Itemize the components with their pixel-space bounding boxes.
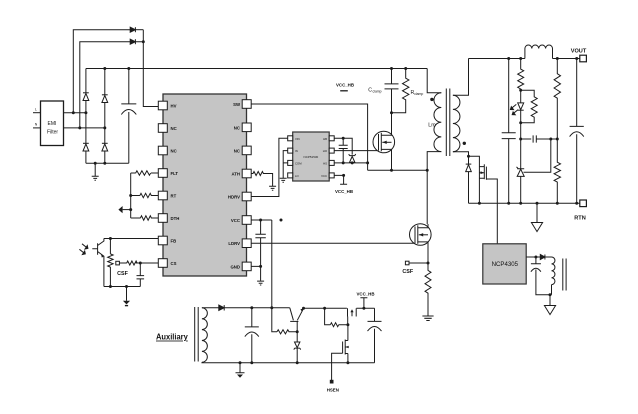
node rtn snubber bbox=[507, 202, 510, 205]
wire output return rail bbox=[469, 202, 581, 204]
svg-text:HB: HB bbox=[323, 137, 327, 141]
node rtn gnd bbox=[536, 202, 539, 205]
resistor R_base bbox=[277, 330, 297, 334]
pin SW bbox=[242, 100, 251, 109]
wire aux bottom bbox=[202, 361, 375, 364]
svg-text:CS: CS bbox=[171, 261, 177, 266]
node zener gnd bbox=[296, 361, 299, 364]
node emitter join bbox=[302, 307, 305, 310]
svg-text:DTH: DTH bbox=[171, 216, 180, 221]
node ref leg bbox=[549, 138, 552, 141]
bridge right leg bbox=[104, 69, 106, 164]
capacitor bulk electrolytic bbox=[121, 69, 136, 164]
diode bridge top-left bbox=[83, 93, 89, 101]
wire LDRV gate drive bbox=[251, 242, 415, 244]
transistor Q3 sync MOSFET bbox=[469, 156, 498, 244]
svg-text:NC: NC bbox=[234, 125, 240, 130]
node rtn divider bbox=[556, 202, 559, 205]
svg-text:VCC: VCC bbox=[231, 218, 240, 223]
svg-text:HSEN: HSEN bbox=[327, 388, 339, 393]
terminal CSF sense bbox=[116, 261, 120, 265]
wire EMI output neutral to bridge bbox=[64, 127, 105, 129]
capacitor C_CS filter bbox=[137, 263, 145, 287]
svg-text:VCC: VCC bbox=[321, 174, 327, 178]
transformer core aux2 bbox=[563, 259, 566, 291]
svg-text:NCP4305: NCP4305 bbox=[492, 261, 519, 268]
inductor aux winding NCP4305 bbox=[552, 257, 555, 285]
diode D1 HV startup from line bbox=[130, 27, 135, 32]
stray junction dot bbox=[280, 219, 283, 222]
node LED chain top bbox=[519, 57, 522, 60]
wire diode to winding bbox=[545, 256, 552, 258]
svg-text:CSF: CSF bbox=[117, 271, 128, 277]
svg-text:VIN: VIN bbox=[295, 137, 300, 141]
pin NC right2 bbox=[242, 123, 251, 132]
capacitor C_comp bbox=[521, 135, 558, 142]
node FB pulldown bbox=[109, 237, 112, 240]
svg-text:HS: HS bbox=[323, 161, 327, 165]
svg-text:L: L bbox=[35, 108, 37, 112]
svg-text:HDRV: HDRV bbox=[228, 195, 240, 200]
svg-text:N: N bbox=[35, 123, 38, 127]
capacitor C_ncp electrolytic bbox=[531, 257, 550, 295]
node bridge left line-in bbox=[84, 111, 87, 114]
pin HO bbox=[329, 148, 334, 153]
node HS HB-leg bbox=[351, 161, 354, 164]
svg-text:VCC_HB: VCC_HB bbox=[356, 292, 374, 297]
wire HB bootstrap bbox=[334, 138, 352, 163]
resistor R_CS filter bbox=[119, 261, 158, 265]
wire switch-node rail bbox=[368, 169, 428, 171]
wire HS to switch node bbox=[334, 162, 367, 164]
wire HO gate drive bbox=[334, 150, 378, 152]
ground ATH earth bbox=[269, 186, 276, 190]
transistor Q5 PMOS switch bbox=[348, 308, 357, 324]
svg-text:SW: SW bbox=[233, 102, 241, 107]
transformer T1 core bbox=[446, 89, 450, 157]
resistor R_led_parallel bbox=[521, 90, 538, 123]
pin LO bbox=[288, 173, 293, 178]
diode bridge bottom-left bbox=[83, 143, 89, 151]
pin FLT bbox=[158, 169, 167, 178]
svg-text:clamp: clamp bbox=[373, 90, 382, 94]
wire emitter rail bbox=[304, 307, 347, 309]
pin ATH bbox=[242, 169, 251, 178]
node comp cap left bbox=[519, 138, 522, 141]
resistor R_div_upper bbox=[554, 59, 560, 140]
node HV diode join bbox=[142, 40, 145, 43]
svg-text:RTN: RTN bbox=[574, 216, 586, 222]
diode LED opto emitter bbox=[510, 90, 523, 123]
resistor R_sense bbox=[425, 263, 431, 316]
node ground tap bbox=[125, 285, 128, 288]
wire LED chain to TL431 bbox=[520, 123, 522, 204]
wire EMI output line to bridge bbox=[64, 112, 86, 114]
ground sense earth bbox=[422, 316, 433, 321]
pin IN bbox=[288, 148, 293, 153]
transistor Q4 pass NPN bbox=[290, 308, 304, 332]
pin VIN bbox=[288, 136, 293, 141]
pin CS bbox=[158, 259, 167, 268]
pin NC right3 bbox=[242, 146, 251, 155]
svg-text:CSF: CSF bbox=[402, 269, 413, 275]
wire FB to opto bbox=[104, 238, 158, 240]
ground arrow analog bbox=[123, 209, 131, 211]
wire NCP4305 vcc bbox=[526, 256, 540, 258]
diode D_aux bbox=[219, 305, 224, 310]
capacitor C_vcchb electrolytic bbox=[368, 308, 382, 363]
wire vcc to base resistor bbox=[272, 308, 277, 332]
node aux cap bbox=[250, 306, 253, 309]
wire HV startup tap from neutral bbox=[80, 42, 130, 128]
wire bulk rail bbox=[86, 68, 427, 70]
node aux cap bottom bbox=[250, 361, 253, 364]
shunt regulator TL431 bbox=[517, 139, 551, 176]
terminal HSEN stub bbox=[330, 380, 333, 383]
node LED top bbox=[519, 89, 522, 92]
op-amp U3 NCP4305 bbox=[483, 244, 526, 284]
diode D_aux2 bbox=[540, 255, 545, 260]
node snubber cap top bbox=[507, 57, 510, 60]
pin FB bbox=[158, 236, 167, 245]
svg-text:FLT: FLT bbox=[171, 171, 179, 176]
supply VCC_HB driver pin bbox=[334, 175, 347, 184]
resistor R_gate2 bbox=[330, 323, 348, 327]
wire driver IN-COM tie to ground bbox=[283, 151, 288, 178]
terminal RTN bbox=[580, 200, 587, 207]
capacitor C_VCC bbox=[255, 220, 265, 266]
node qsmall drain bbox=[346, 323, 349, 326]
wire VCC feed down to aux bbox=[271, 220, 273, 308]
pin HDRV bbox=[242, 192, 251, 201]
transistor opto output bbox=[79, 239, 104, 287]
node rail right-leg bbox=[103, 67, 106, 70]
ground aux arrow bbox=[236, 363, 245, 373]
terminal CSF main bbox=[405, 261, 409, 265]
node q6 source bbox=[346, 361, 349, 364]
svg-text:IN: IN bbox=[295, 149, 298, 153]
node bridge right neutral-in bbox=[103, 126, 106, 129]
wire bridge bottom bbox=[86, 162, 129, 164]
pin VCC bbox=[242, 216, 251, 225]
capacitor C_sec snubber bbox=[502, 59, 516, 204]
pin GND bbox=[242, 262, 251, 271]
diode bridge bottom-right bbox=[102, 143, 108, 151]
wire HV feed down to HV pin bbox=[135, 30, 158, 107]
transistor Q6 HSEN MOSFET bbox=[343, 325, 349, 363]
node secondary bottom bbox=[467, 155, 470, 158]
ground driver earth bbox=[280, 178, 287, 182]
pin DTH bbox=[158, 214, 167, 223]
resistor R_FLT bbox=[131, 171, 159, 175]
svg-text:clamp: clamp bbox=[414, 92, 423, 96]
diode D2 HV startup from neutral bbox=[130, 39, 135, 44]
node line tap bbox=[72, 111, 75, 114]
svg-text:NC: NC bbox=[234, 148, 240, 153]
node LED bottom bbox=[519, 121, 522, 124]
svg-text:GND: GND bbox=[230, 264, 240, 269]
pin RT bbox=[158, 191, 167, 200]
resistor R_led_series bbox=[518, 59, 524, 91]
svg-text:NC: NC bbox=[171, 126, 177, 131]
svg-text:HV: HV bbox=[171, 104, 177, 109]
node base bbox=[296, 330, 299, 333]
capacitor C_clamp bbox=[385, 69, 399, 113]
resistor R_clamp bbox=[392, 69, 409, 113]
node neutral tap bbox=[78, 126, 81, 129]
node CS filter bbox=[139, 262, 142, 265]
pin HV bbox=[158, 101, 167, 110]
svg-text:Lm: Lm bbox=[428, 122, 436, 128]
svg-text:NCP51530: NCP51530 bbox=[304, 155, 319, 159]
node rail bulk-cap bbox=[127, 67, 130, 70]
wire D1 to HV node bbox=[135, 29, 143, 31]
transistor Q2 main MOSFET bbox=[410, 224, 432, 263]
svg-text:VOUT: VOUT bbox=[571, 48, 587, 54]
capacitor C_boot bbox=[339, 138, 348, 163]
op-amp U2 half-bridge driver NCP51530 bbox=[293, 132, 330, 181]
wire switch node to lower FET bbox=[426, 170, 428, 224]
pin COM bbox=[288, 160, 293, 165]
svg-text:COM: COM bbox=[295, 161, 302, 165]
resistor R_ATH bbox=[251, 172, 272, 187]
wire HV startup tap from line bbox=[73, 30, 130, 113]
svg-text:EMI: EMI bbox=[48, 121, 57, 127]
svg-text:FB: FB bbox=[171, 239, 177, 244]
pin VCC2 bbox=[329, 173, 334, 178]
terminal VOUT bbox=[580, 55, 587, 62]
wire VCC bbox=[251, 219, 272, 221]
node primary dot polarity bbox=[430, 98, 433, 101]
node vcc feed bbox=[270, 306, 273, 309]
bridge left leg bbox=[85, 69, 87, 164]
wire SW sense bbox=[251, 104, 367, 170]
wire FLT bus bbox=[130, 173, 132, 218]
EMI filter box bbox=[41, 101, 64, 146]
svg-text:ATH: ATH bbox=[231, 172, 240, 177]
ground signal arrow bbox=[126, 287, 128, 301]
node HB cap top bbox=[342, 137, 345, 140]
inductor aux winding bbox=[202, 308, 207, 363]
svg-text:Auxiliary: Auxiliary bbox=[156, 333, 188, 342]
capacitor C_out electrolytic bbox=[570, 59, 584, 204]
ground IC earth bbox=[257, 281, 264, 285]
node primary bottom bbox=[426, 169, 429, 172]
node rtn tl431 bbox=[519, 202, 522, 205]
node rtn cout bbox=[575, 202, 578, 205]
wire GND pin bbox=[251, 266, 260, 280]
node aux gnd bbox=[239, 361, 242, 364]
wire HSEN gate bbox=[332, 353, 343, 380]
node pulldown bottom bbox=[109, 285, 112, 288]
wire FB bottom bbox=[104, 286, 140, 288]
node clamp FET drain bbox=[390, 111, 393, 114]
node ncp gnd bbox=[549, 293, 552, 296]
node CS sense bbox=[427, 262, 430, 265]
node HS cap bottom bbox=[342, 161, 345, 164]
transistor Q1 clamp MOSFET bbox=[373, 113, 395, 170]
pin NC left3 bbox=[158, 146, 167, 155]
transformer T1 secondary bbox=[453, 95, 460, 151]
diode D_body sync rectifier bbox=[466, 156, 472, 203]
node output cap top bbox=[575, 57, 578, 60]
svg-text:Filter: Filter bbox=[47, 130, 58, 136]
zener D_z base bbox=[294, 332, 301, 363]
svg-text:NC: NC bbox=[171, 149, 177, 154]
pin HS bbox=[329, 160, 334, 165]
node secondary dot polarity bbox=[463, 142, 466, 145]
node RT join bbox=[129, 194, 132, 197]
node pmos tap bbox=[323, 307, 326, 310]
wire AC neutral input stub N bbox=[33, 127, 41, 129]
svg-text:VCC_HB: VCC_HB bbox=[336, 83, 354, 88]
inductor L_out bbox=[521, 45, 553, 58]
ground ncp chassis bbox=[549, 295, 551, 306]
capacitor C_aux electrolytic bbox=[245, 308, 259, 363]
svg-text:LDRV: LDRV bbox=[228, 241, 240, 246]
node bottom right bbox=[103, 162, 106, 165]
node GND pin join bbox=[259, 265, 262, 268]
resistor R_DTH bbox=[131, 216, 159, 220]
node sync source bbox=[478, 202, 481, 205]
ground secondary chassis bbox=[536, 203, 538, 222]
svg-text:RT: RT bbox=[171, 194, 177, 199]
wire pmos drain loop bbox=[325, 308, 331, 324]
wire HDRV to driver input bbox=[251, 138, 288, 196]
node SW-HS join bbox=[366, 161, 369, 164]
node divider mid bbox=[556, 138, 559, 141]
node bottom left bbox=[94, 162, 97, 165]
resistor R_div_lower bbox=[554, 139, 560, 203]
pin LDRV bbox=[242, 239, 251, 248]
wire secondary top to VOUT rail bbox=[469, 58, 521, 60]
transformer T1 primary bbox=[427, 69, 441, 93]
zener D_boot bbox=[349, 154, 356, 162]
svg-text:VCC_HB: VCC_HB bbox=[335, 189, 353, 194]
ground primary earth bbox=[92, 163, 99, 180]
node divider top bbox=[556, 57, 559, 60]
wire aux top bbox=[202, 307, 219, 309]
op-amp U1 main controller IC bbox=[163, 94, 247, 276]
supply VCC_HB aux bbox=[362, 307, 365, 310]
pin NC left2 bbox=[158, 124, 167, 133]
diode bridge top-right bbox=[102, 95, 108, 103]
resistor R_FB pulldown bbox=[108, 239, 113, 287]
transformer core aux bbox=[195, 307, 199, 362]
wire AC line input stub L bbox=[33, 112, 41, 114]
resistor R_RT bbox=[131, 193, 159, 197]
node clamp FET source bbox=[390, 169, 393, 172]
wire aux rect out bbox=[224, 307, 290, 309]
node ncp cap bbox=[534, 256, 537, 259]
pin HB bbox=[329, 136, 334, 141]
node VCC decoupling bbox=[259, 219, 262, 222]
